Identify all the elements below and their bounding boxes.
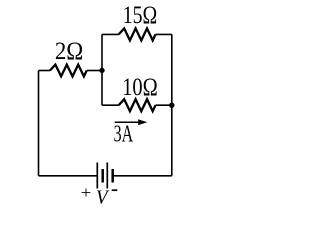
battery plate long 2	[106, 163, 108, 189]
arrow head	[138, 119, 147, 125]
node B junction dot (right)	[169, 103, 174, 108]
arrow shaft	[115, 121, 140, 123]
wire: top branch left lead	[102, 33, 119, 35]
resistor R3 10ohm branch (middle)	[102, 99, 172, 111]
battery V1	[97, 163, 112, 189]
wire: middle branch right lead	[156, 104, 172, 106]
wire: top branch right lead	[156, 33, 172, 35]
battery plate short 2	[111, 169, 114, 183]
battery plate long 1	[96, 163, 98, 189]
wire: 2ohm branch left lead	[39, 70, 51, 72]
wire: bottom left segment to battery	[39, 175, 97, 177]
wire: right vertical	[171, 34, 173, 175]
wire: left vertical of outer loop	[38, 71, 40, 176]
resistor R3 zigzag	[119, 99, 156, 111]
svg-text:3A: 3A	[114, 121, 134, 147]
resistor R1 zigzag	[50, 65, 87, 77]
wire: bottom right segment from battery	[114, 175, 172, 177]
node A junction dot (left)	[99, 68, 104, 73]
resistor R2 zigzag	[119, 28, 156, 40]
resistor R1 2ohm (wire + zigzag)	[39, 65, 103, 77]
wire: inner left vertical	[101, 34, 103, 105]
wire: 2ohm branch right lead	[87, 70, 102, 72]
current arrow 3A	[115, 119, 148, 125]
svg-text:10Ω: 10Ω	[122, 74, 158, 101]
resistor R2 15ohm branch (top)	[102, 28, 172, 40]
svg-text:+: +	[81, 183, 92, 202]
label - (battery negative)	[112, 189, 118, 191]
wire: middle branch left lead	[102, 104, 119, 106]
svg-text:15Ω: 15Ω	[123, 2, 158, 29]
battery plate short 1	[101, 169, 104, 183]
svg-text:2Ω: 2Ω	[55, 38, 84, 65]
